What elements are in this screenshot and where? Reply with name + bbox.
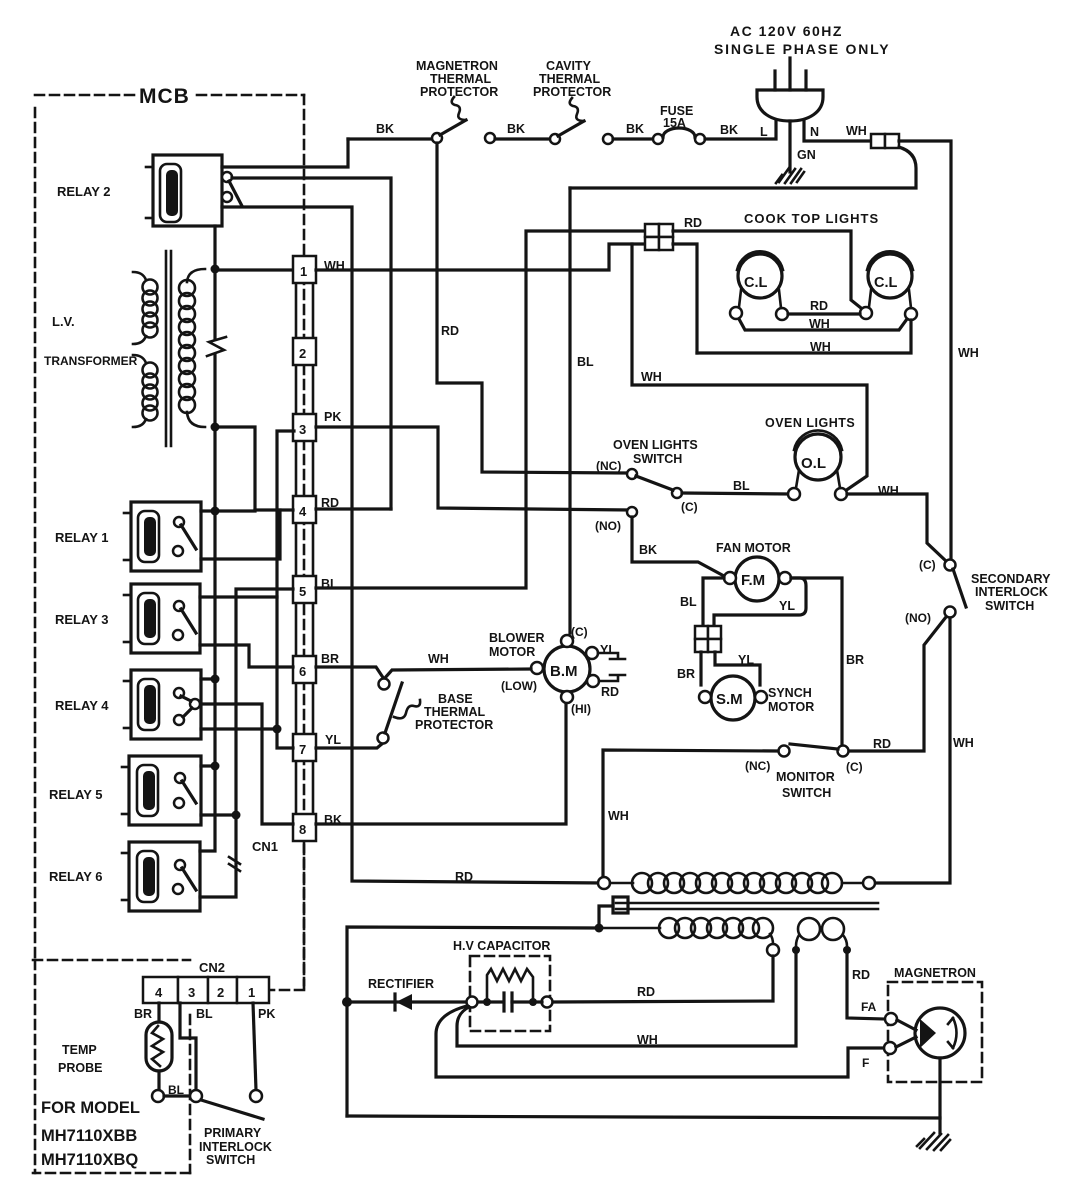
node relay4 bottom junction: [273, 725, 282, 734]
wire pin1 WH from bus: [215, 268, 294, 271]
svg-text:C.L: C.L: [744, 275, 768, 291]
svg-text:RD: RD: [852, 968, 870, 982]
terminal PK dangling: [250, 1090, 262, 1102]
svg-text:THERMAL: THERMAL: [430, 72, 491, 86]
svg-text:5: 5: [299, 584, 306, 599]
wire WH lamp1 to lamp2: [739, 319, 907, 330]
svg-text:RELAY 5: RELAY 5: [49, 787, 102, 802]
node relay2 coil to bus: [213, 226, 216, 269]
wire bottom loop to ground: [347, 1116, 940, 1118]
wire plug N to connector: [804, 121, 871, 141]
svg-text:WH: WH: [958, 346, 979, 360]
svg-text:TRANSFORMER: TRANSFORMER: [44, 354, 138, 368]
svg-text:PRIMARY: PRIMARY: [204, 1126, 262, 1140]
wire relay2 bottom to RD long line: [222, 207, 604, 883]
wire connector to lamp2 RD riser: [673, 231, 861, 308]
wire WH oven lamp riser: [632, 244, 867, 491]
svg-text:15A: 15A: [663, 116, 686, 130]
svg-text:2: 2: [299, 346, 306, 361]
wire relay5 top to bus: [201, 764, 215, 767]
svg-text:SWITCH: SWITCH: [782, 786, 831, 800]
lamp C.L 2: [860, 251, 917, 320]
relay R2 contacts: [222, 172, 242, 206]
svg-text:WH: WH: [608, 809, 629, 823]
svg-text:(NO): (NO): [905, 611, 931, 625]
svg-text:BK: BK: [720, 123, 738, 137]
wire PK pin3 to oven lights NO: [316, 427, 629, 510]
svg-text:COOK TOP LIGHTS: COOK TOP LIGHTS: [744, 211, 879, 226]
stub RD blower: [599, 675, 625, 681]
svg-text:MOTOR: MOTOR: [768, 700, 814, 714]
svg-text:L.V.: L.V.: [52, 314, 75, 329]
svg-text:SINGLE PHASE ONLY: SINGLE PHASE ONLY: [714, 41, 890, 57]
svg-text:CN2: CN2: [199, 960, 225, 975]
svg-text:BR: BR: [846, 653, 864, 667]
node relay5 bottom dot: [232, 811, 241, 820]
svg-text:2: 2: [217, 985, 224, 1000]
svg-text:RD: RD: [455, 870, 473, 884]
CN1 pin 2: [293, 338, 316, 365]
H.V. transformer secondary right terminal: [767, 944, 779, 956]
FOR MODEL dashed box: [33, 960, 190, 1173]
wire BL pin5 to cook-top connector riser: [316, 231, 645, 588]
wire WH blower LOW to base protector: [384, 669, 531, 679]
relay R5 box: [122, 756, 201, 825]
wire monitor NC to WH drop: [603, 750, 778, 877]
rectifier diode: [395, 994, 412, 1010]
monitor switch: [779, 744, 849, 757]
svg-text:AC 120V 60HZ: AC 120V 60HZ: [730, 23, 843, 39]
svg-text:3: 3: [188, 985, 195, 1000]
svg-text:S.M: S.M: [716, 691, 743, 708]
terminal temp probe bottom: [152, 1090, 164, 1102]
wire relay5 bottom: [201, 813, 236, 816]
svg-text:7: 7: [299, 742, 306, 757]
svg-text:6: 6: [299, 664, 306, 679]
wire BK top line: [348, 137, 437, 140]
svg-text:RD: RD: [601, 685, 619, 699]
CN1 pin 4: [293, 496, 316, 523]
svg-text:BL: BL: [577, 355, 594, 369]
svg-text:WH: WH: [953, 736, 974, 750]
magnetron tube: [884, 1008, 965, 1058]
wire rectifier line: [347, 1000, 466, 1003]
svg-text:8: 8: [299, 822, 306, 837]
primary interlock blade: [201, 1100, 263, 1119]
node filament right: [843, 946, 851, 954]
svg-text:1: 1: [248, 985, 255, 1000]
wire BR CN2-4 to temp probe: [157, 1003, 160, 1022]
wire relay1 bottom riser: [201, 510, 280, 559]
H.V. transformer core: [613, 897, 878, 913]
wire BK pin8 to blower HI: [316, 703, 566, 824]
base thermal protector: [378, 679, 421, 744]
svg-text:H.V CAPACITOR: H.V CAPACITOR: [453, 939, 550, 953]
svg-text:(NO): (NO): [595, 519, 621, 533]
wire BR fan motor to monitor C: [791, 578, 842, 745]
svg-text:OVEN LIGHTS: OVEN LIGHTS: [613, 438, 698, 452]
svg-text:PROTECTOR: PROTECTOR: [420, 85, 498, 99]
svg-text:(C): (C): [571, 625, 588, 639]
CN1 pin 8: [293, 814, 316, 841]
wire BK to plug L: [705, 120, 776, 139]
svg-text:4: 4: [155, 985, 163, 1000]
svg-text:O.L: O.L: [801, 455, 826, 472]
H.V. transformer secondary winding: [599, 918, 773, 944]
oven lights switch: [627, 469, 682, 517]
wire RD interlock NO to monitor C: [848, 617, 946, 751]
svg-text:RELAY 1: RELAY 1: [55, 530, 108, 545]
wire WH capacitor to filament left: [457, 950, 796, 1046]
relay R2 box: [146, 155, 222, 226]
wire BL CN2-3 to interlock: [180, 1003, 196, 1090]
wire connector bottom right to WH lower: [673, 244, 697, 353]
wire pin3 left riser: [277, 431, 294, 748]
H.V. transformer filament winding: [796, 918, 847, 946]
synch motor S.M: [699, 676, 767, 720]
cavity thermal protector: [550, 98, 613, 144]
wire BR connector to synch motor: [699, 652, 702, 685]
connector on N wire: [871, 134, 899, 148]
svg-text:MAGNETRON: MAGNETRON: [416, 59, 498, 73]
svg-text:RELAY 2: RELAY 2: [57, 184, 110, 199]
svg-text:RD: RD: [684, 216, 702, 230]
blower motor B.M: [531, 635, 599, 703]
svg-text:BK: BK: [626, 122, 644, 136]
svg-text:RD: RD: [637, 985, 655, 999]
capacitor C1 terminals: [467, 997, 478, 1008]
continuation marks on pin5 drop wire: [229, 857, 240, 871]
CN1 pin 7: [293, 734, 316, 761]
svg-text:CN1: CN1: [252, 839, 278, 854]
wire YL connector to synch motor: [715, 652, 760, 685]
L.V. transformer primary winding upper: [133, 272, 158, 344]
lamp C.L 1: [730, 251, 788, 320]
svg-text:1: 1: [300, 264, 307, 279]
node filament left: [792, 946, 800, 954]
fuse F1 15A: [653, 128, 705, 144]
wire transformer bottom to common rail: [215, 427, 255, 510]
svg-text:RECTIFIER: RECTIFIER: [368, 977, 434, 991]
svg-text:RD: RD: [873, 737, 891, 751]
wire bus lower segment: [200, 355, 215, 851]
svg-text:CAVITY: CAVITY: [546, 59, 592, 73]
svg-text:INTERLOCK: INTERLOCK: [199, 1140, 272, 1154]
svg-text:(HI): (HI): [571, 702, 591, 716]
temp probe: [146, 1022, 172, 1071]
svg-text:INTERLOCK: INTERLOCK: [975, 585, 1048, 599]
wire magnetron ground: [917, 1058, 950, 1150]
H.V. transformer primary right terminal: [863, 877, 875, 889]
wire relay1 top row: [201, 509, 255, 512]
wire WH interlock NO down to transformer: [874, 618, 950, 883]
CN1 pin 6: [293, 656, 316, 683]
wire F capacitor to magnetron F: [436, 1006, 884, 1077]
wire pin6 left to relay3 bottom: [200, 645, 293, 667]
wire BR pin6 to base thermal protector: [316, 667, 384, 679]
primary interlock switch pivot: [190, 1090, 202, 1102]
svg-text:BL: BL: [196, 1007, 213, 1021]
wire N connector curve down to horizontal 188: [570, 147, 916, 188]
svg-text:THERMAL: THERMAL: [424, 705, 485, 719]
svg-text:4: 4: [299, 504, 307, 519]
svg-text:SECONDARY: SECONDARY: [971, 572, 1051, 586]
node secondary left junction: [595, 924, 604, 933]
wire relay2 middle to RD riser: [232, 178, 391, 509]
svg-text:YL: YL: [779, 599, 795, 613]
wire RD capacitor to secondary: [553, 956, 773, 1002]
svg-text:WH: WH: [810, 340, 831, 354]
wire RD from magnetron protector down to oven lights switch NC: [437, 143, 625, 473]
fan motor F.M: [724, 557, 791, 601]
wire relay4 bottom to pin7 riser: [201, 727, 277, 730]
svg-text:FAN MOTOR: FAN MOTOR: [716, 541, 791, 555]
wire BL fan motor left to connector: [703, 578, 724, 626]
wire BK: [495, 137, 555, 140]
CN1 connector strip: [296, 269, 313, 827]
svg-text:BK: BK: [639, 543, 657, 557]
wire BL switch C to O.L lamp: [682, 493, 789, 494]
secondary interlock switch: [945, 560, 967, 618]
H.V. transformer primary winding: [610, 873, 863, 893]
svg-text:SYNCH: SYNCH: [768, 686, 812, 700]
CN1 pin 5: [293, 576, 316, 603]
svg-text:RELAY 3: RELAY 3: [55, 612, 108, 627]
L.V. transformer secondary winding: [179, 269, 205, 427]
svg-text:3: 3: [299, 422, 306, 437]
node rectifier junction: [342, 997, 352, 1007]
wire BK oven switch NO to fan motor: [632, 517, 724, 576]
wire HV loop left side: [347, 927, 599, 1116]
svg-text:MONITOR: MONITOR: [776, 770, 835, 784]
varistor Z symbol on bus: [207, 337, 226, 356]
svg-text:L: L: [760, 125, 768, 139]
node transformer bottom junction: [211, 423, 220, 432]
svg-text:BLOWER: BLOWER: [489, 631, 545, 645]
wire relay3 top to pin7 riser: [200, 595, 277, 598]
svg-text:PROTECTOR: PROTECTOR: [533, 85, 611, 99]
svg-text:BR: BR: [677, 667, 695, 681]
wire temp probe to BL terminal: [157, 1071, 160, 1091]
svg-text:FA: FA: [861, 1000, 877, 1014]
wire PK CN2-1: [253, 1003, 256, 1090]
svg-text:WH: WH: [428, 652, 449, 666]
wire RD pin4 to relay2 riser: [316, 507, 391, 510]
svg-text:PK: PK: [324, 410, 341, 424]
svg-text:(LOW): (LOW): [501, 679, 537, 693]
svg-text:YL: YL: [325, 733, 341, 747]
wire WH O.L to secondary interlock C: [847, 494, 946, 561]
svg-text:THERMAL: THERMAL: [539, 72, 600, 86]
svg-text:PK: PK: [258, 1007, 275, 1021]
svg-text:RELAY 4: RELAY 4: [55, 698, 109, 713]
svg-text:F: F: [862, 1056, 869, 1070]
svg-text:OVEN LIGHTS: OVEN LIGHTS: [765, 416, 855, 430]
svg-text:MOTOR: MOTOR: [489, 645, 535, 659]
wire pin8 left from relay4 middle: [201, 704, 293, 824]
wire pin5 left to relay bus: [200, 589, 293, 897]
node relay5 top bus dot: [211, 762, 220, 771]
CN1 pin 3: [293, 414, 316, 441]
svg-text:MAGNETRON: MAGNETRON: [894, 966, 976, 980]
svg-text:WH: WH: [846, 124, 867, 138]
svg-text:GN: GN: [797, 148, 816, 162]
magnetron thermal protector: [432, 97, 495, 143]
wire WH connector to right edge and down: [899, 141, 951, 563]
svg-text:(C): (C): [919, 558, 936, 572]
CN1 pin 1: [293, 256, 316, 283]
wire YL fan motor right loop to connector: [714, 578, 806, 626]
L.V. transformer core: [165, 251, 168, 446]
relay R3 box: [124, 584, 200, 653]
CN2 connector strip: [143, 977, 269, 1003]
wire BL main vertical N to blower C: [568, 188, 571, 633]
connector fan/synch motor: [695, 626, 721, 652]
svg-text:MH7110XBB: MH7110XBB: [41, 1127, 137, 1145]
svg-text:RD: RD: [810, 299, 828, 313]
wire RD pin4 row: [255, 508, 293, 511]
wire WH pin1 to cook-top connector: [316, 244, 645, 270]
connector cook top lights: [645, 224, 673, 250]
node relay1 top bus dot: [211, 507, 220, 516]
stub YL blower: [598, 653, 625, 659]
L.V. transformer primary winding lower: [133, 355, 158, 427]
svg-text:F.M: F.M: [741, 572, 765, 589]
bleed resistor: [483, 969, 537, 1006]
svg-text:B.M: B.M: [550, 663, 578, 680]
svg-text:(NC): (NC): [745, 759, 770, 773]
wire relay4 top to bus: [201, 677, 215, 680]
wire RD filament right to magnetron FA: [847, 950, 885, 1019]
MCB dashed border: [35, 95, 304, 990]
svg-text:MH7110XBQ: MH7110XBQ: [41, 1151, 138, 1169]
svg-text:SWITCH: SWITCH: [985, 599, 1034, 613]
wire core box to secondary junction: [599, 906, 613, 928]
dashed link CN1 to CN2: [303, 843, 306, 985]
wire to primary interlock pivot: [164, 1094, 190, 1097]
svg-text:MCB: MCB: [139, 85, 190, 108]
svg-text:PROTECTOR: PROTECTOR: [415, 718, 493, 732]
svg-text:BK: BK: [507, 122, 525, 136]
wire WH lower loop: [697, 320, 911, 353]
svg-text:YL: YL: [600, 643, 616, 657]
svg-text:WH: WH: [637, 1033, 658, 1047]
node transformer top junction: [211, 265, 220, 274]
svg-text:N: N: [810, 125, 819, 139]
svg-text:YL: YL: [738, 653, 754, 667]
svg-text:BK: BK: [376, 122, 394, 136]
svg-text:BR: BR: [134, 1007, 152, 1021]
svg-text:WH: WH: [878, 484, 899, 498]
svg-text:BR: BR: [321, 652, 339, 666]
svg-text:RELAY 6: RELAY 6: [49, 869, 102, 884]
svg-text:BL: BL: [680, 595, 697, 609]
svg-text:C.L: C.L: [874, 275, 898, 291]
relay R6 box: [122, 842, 200, 911]
svg-text:(NC): (NC): [596, 459, 621, 473]
svg-text:TEMP: TEMP: [62, 1043, 97, 1057]
svg-text:WH: WH: [809, 317, 830, 331]
wire BK: [613, 137, 658, 140]
wire relay2 top to BK line: [222, 139, 348, 167]
svg-text:BL: BL: [733, 479, 750, 493]
capacitor C1: [478, 993, 542, 1011]
H.V. capacitor dashed box: [470, 956, 550, 1031]
svg-text:(C): (C): [846, 760, 863, 774]
AC plug: [757, 58, 823, 121]
svg-text:SWITCH: SWITCH: [633, 452, 682, 466]
magnetron dashed box: [888, 982, 982, 1082]
svg-text:PROBE: PROBE: [58, 1061, 102, 1075]
svg-text:RD: RD: [441, 324, 459, 338]
relay R1 box: [124, 502, 201, 571]
wire YL pin7 to base thermal protector lower: [316, 743, 383, 748]
svg-text:FOR MODEL: FOR MODEL: [41, 1099, 140, 1117]
wire bus upper segment: [213, 269, 216, 339]
svg-text:(C): (C): [681, 500, 698, 514]
node relay4 top bus dot: [211, 675, 220, 684]
svg-text:WH: WH: [641, 370, 662, 384]
H.V. transformer primary left terminal: [598, 877, 610, 889]
relay R4 box: [124, 670, 201, 739]
lamp O.L: [788, 430, 847, 500]
svg-text:BASE: BASE: [438, 692, 473, 706]
svg-text:SWITCH: SWITCH: [206, 1153, 255, 1167]
wire GN with ground: [776, 121, 804, 183]
wire RD between lamps: [788, 312, 860, 315]
